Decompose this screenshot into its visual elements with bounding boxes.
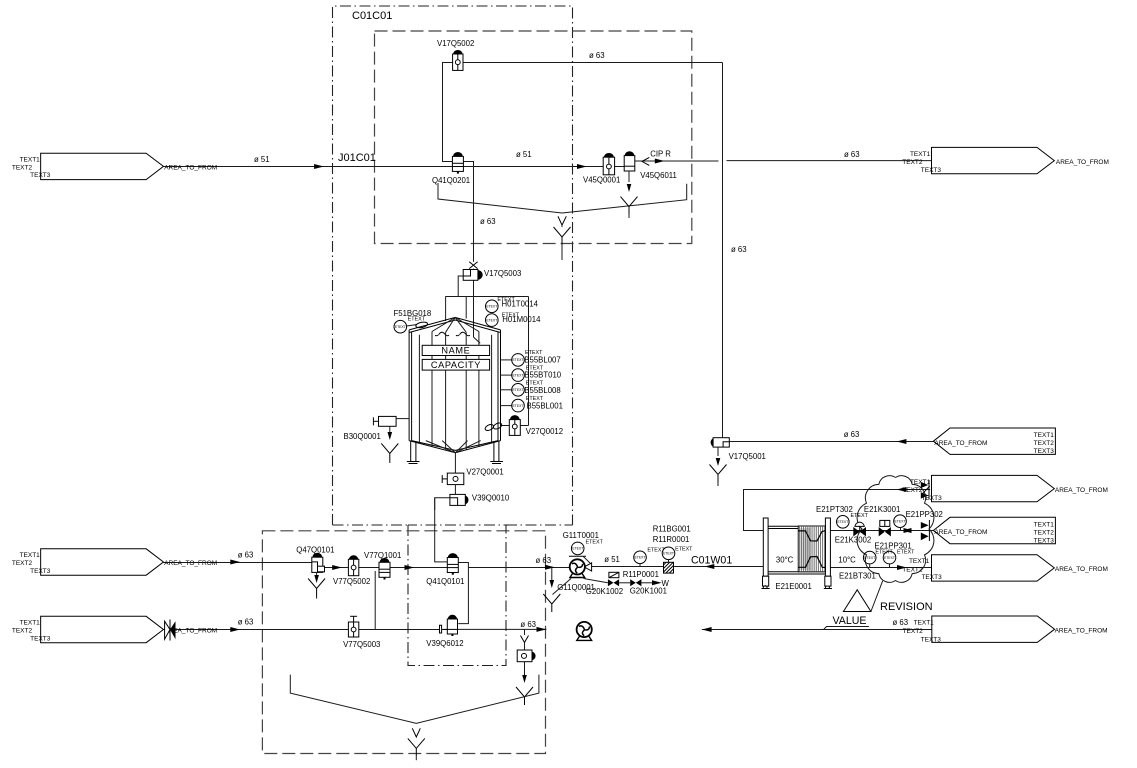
- svg-text:E21E0001: E21E0001: [775, 582, 811, 591]
- svg-text:ETEXT: ETEXT: [851, 513, 869, 519]
- svg-text:B30Q0001: B30Q0001: [344, 432, 381, 441]
- svg-text:TEXT3: TEXT3: [1034, 448, 1055, 455]
- svg-text:TEXT1: TEXT1: [914, 620, 935, 627]
- svg-text:R11R0001: R11R0001: [653, 535, 690, 544]
- svg-text:AREA_TO_FROM: AREA_TO_FROM: [164, 165, 217, 172]
- svg-text:TEXT3: TEXT3: [30, 568, 51, 575]
- svg-text:TEXT1: TEXT1: [20, 552, 41, 559]
- svg-text:V17Q5001: V17Q5001: [729, 452, 766, 461]
- svg-text:AREA_TO_FROM: AREA_TO_FROM: [934, 529, 987, 536]
- svg-text:CIP R: CIP R: [650, 149, 671, 158]
- svg-text:G20K1002: G20K1002: [586, 587, 623, 596]
- svg-text:C01C01: C01C01: [352, 10, 392, 22]
- svg-text:TEXT3: TEXT3: [921, 636, 942, 643]
- svg-text:V77Q5002: V77Q5002: [333, 577, 370, 586]
- svg-text:TEXT2: TEXT2: [1034, 440, 1055, 447]
- svg-text:ø 63: ø 63: [731, 245, 747, 254]
- svg-text:B55BL007: B55BL007: [524, 355, 560, 364]
- svg-text:TEXT1: TEXT1: [20, 620, 41, 627]
- svg-text:ETEXT: ETEXT: [675, 547, 693, 553]
- svg-text:C01W01: C01W01: [691, 555, 732, 567]
- svg-text:TEXT2: TEXT2: [12, 560, 33, 567]
- svg-text:ø 51: ø 51: [516, 150, 532, 159]
- svg-text:30°C: 30°C: [776, 556, 794, 565]
- svg-text:TEXT2: TEXT2: [902, 566, 923, 573]
- svg-text:G11T0001: G11T0001: [563, 531, 599, 540]
- svg-text:TEXT1: TEXT1: [910, 151, 931, 158]
- svg-text:E21PP302: E21PP302: [906, 510, 943, 519]
- svg-text:ø 63: ø 63: [893, 618, 909, 627]
- svg-text:V17Q5003: V17Q5003: [484, 269, 521, 278]
- svg-text:B55BL001: B55BL001: [527, 402, 563, 411]
- svg-text:ø 63: ø 63: [536, 556, 552, 565]
- svg-text:ETEXT: ETEXT: [897, 550, 915, 556]
- svg-text:E21K3002: E21K3002: [835, 535, 871, 544]
- svg-text:Q47Q0101: Q47Q0101: [296, 546, 334, 555]
- svg-text:ø 63: ø 63: [238, 618, 254, 627]
- svg-text:V39Q6012: V39Q6012: [426, 639, 463, 648]
- svg-text:AREA_TO_FROM: AREA_TO_FROM: [1056, 159, 1109, 166]
- svg-text:V45Q6011: V45Q6011: [640, 171, 677, 180]
- svg-text:ø 63: ø 63: [844, 150, 860, 159]
- svg-text:VALUE: VALUE: [833, 615, 867, 627]
- svg-text:ø 63: ø 63: [844, 430, 860, 439]
- svg-text:TEXT3: TEXT3: [921, 167, 942, 174]
- svg-text:TEXT1: TEXT1: [20, 156, 41, 163]
- svg-text:TEXT2: TEXT2: [902, 487, 923, 494]
- svg-text:V17Q5002: V17Q5002: [437, 39, 474, 48]
- svg-text:R11BG001: R11BG001: [653, 524, 691, 533]
- svg-text:AREA_TO_FROM: AREA_TO_FROM: [1055, 627, 1108, 634]
- svg-text:ø 51: ø 51: [604, 555, 620, 564]
- svg-text:E21K3001: E21K3001: [864, 505, 900, 514]
- svg-text:TEXT1: TEXT1: [1034, 432, 1055, 439]
- svg-text:TEXT3: TEXT3: [1034, 538, 1055, 545]
- svg-text:V45Q0001: V45Q0001: [583, 176, 620, 185]
- svg-text:E21BT301: E21BT301: [839, 572, 876, 581]
- svg-text:ø 63: ø 63: [520, 620, 536, 629]
- svg-text:TEXT3: TEXT3: [30, 635, 51, 642]
- svg-text:AREA_TO_FROM: AREA_TO_FROM: [1055, 487, 1108, 494]
- svg-text:AREA_TO_FROM: AREA_TO_FROM: [164, 560, 217, 567]
- svg-text:ø 51: ø 51: [254, 155, 270, 164]
- svg-text:V77Q1001: V77Q1001: [364, 551, 401, 560]
- svg-text:R11P0001: R11P0001: [623, 570, 659, 579]
- svg-text:TEXT3: TEXT3: [30, 172, 51, 179]
- svg-text:TEXT2: TEXT2: [1034, 530, 1055, 537]
- svg-text:V77Q5003: V77Q5003: [343, 640, 380, 649]
- svg-text:V27Q0001: V27Q0001: [466, 468, 503, 477]
- svg-text:ø 63: ø 63: [238, 551, 254, 560]
- svg-text:TEXT2: TEXT2: [902, 159, 923, 166]
- svg-text:B55BT010: B55BT010: [524, 371, 562, 380]
- svg-text:CAPACITY: CAPACITY: [431, 360, 481, 370]
- svg-text:B55BL008: B55BL008: [524, 386, 560, 395]
- svg-text:H01T0014: H01T0014: [502, 299, 539, 308]
- svg-text:AREA_TO_FROM: AREA_TO_FROM: [1055, 566, 1108, 573]
- svg-text:NAME: NAME: [441, 346, 470, 356]
- svg-text:TEXT2: TEXT2: [12, 628, 33, 635]
- svg-text:TEXT1: TEXT1: [1034, 522, 1055, 529]
- svg-text:10°C: 10°C: [838, 556, 856, 565]
- svg-text:H01M0014: H01M0014: [502, 315, 541, 324]
- svg-text:E21PT302: E21PT302: [816, 505, 853, 514]
- svg-text:Q41Q0101: Q41Q0101: [426, 577, 464, 586]
- svg-text:J01C01: J01C01: [338, 152, 376, 164]
- svg-text:V27Q0012: V27Q0012: [526, 427, 563, 436]
- svg-text:ETEXT: ETEXT: [586, 540, 604, 546]
- svg-text:TEXT2: TEXT2: [12, 164, 33, 171]
- svg-text:TEXT2: TEXT2: [903, 628, 924, 635]
- svg-text:Q41Q0201: Q41Q0201: [432, 176, 470, 185]
- svg-text:G20K1001: G20K1001: [630, 587, 667, 596]
- svg-text:TEXT3: TEXT3: [921, 574, 942, 581]
- svg-text:TEXT1: TEXT1: [909, 558, 930, 565]
- svg-text:ø 63: ø 63: [589, 51, 605, 60]
- svg-text:AREA_TO_FROM: AREA_TO_FROM: [934, 440, 987, 447]
- svg-text:REVISION: REVISION: [880, 601, 933, 613]
- svg-text:V39Q0010: V39Q0010: [472, 494, 510, 503]
- svg-text:ø 63: ø 63: [480, 217, 496, 226]
